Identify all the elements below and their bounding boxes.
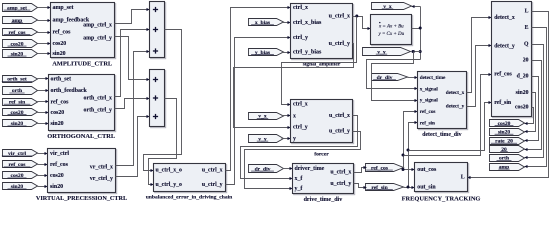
svg-text:cos20: cos20 bbox=[50, 173, 64, 179]
svg-text:ctrl_x_bias: ctrl_x_bias bbox=[293, 20, 322, 26]
svg-text:detect_y: detect_y bbox=[446, 104, 465, 110]
svg-text:detect_x: detect_x bbox=[494, 15, 515, 21]
svg-text:vir_ctrl: vir_ctrl bbox=[50, 151, 69, 157]
svg-text:out_sin: out_sin bbox=[417, 185, 436, 191]
svg-text:unbalanced_error_in_driving_ch: unbalanced_error_in_driving_chain bbox=[146, 195, 233, 201]
svg-text:u_ctrl_x_o: u_ctrl_x_o bbox=[156, 168, 183, 174]
svg-text:cos20: cos20 bbox=[53, 41, 67, 47]
svg-text:sin20: sin20 bbox=[51, 121, 64, 127]
svg-text:20: 20 bbox=[523, 58, 529, 64]
svg-text:cos20: cos20 bbox=[498, 121, 511, 127]
svg-text:orth: orth bbox=[499, 156, 509, 162]
svg-text:cos20: cos20 bbox=[10, 110, 23, 116]
svg-text:orth_set: orth_set bbox=[51, 77, 72, 83]
svg-text:sin20: sin20 bbox=[50, 184, 63, 190]
svg-text:ref_sin: ref_sin bbox=[494, 100, 512, 106]
svg-text:detect_time: detect_time bbox=[420, 75, 446, 81]
svg-text:y: y bbox=[293, 136, 296, 142]
svg-text:FREQUENCY_TRACKING: FREQUENCY_TRACKING bbox=[402, 196, 481, 203]
svg-text:out_cos: out_cos bbox=[417, 167, 437, 173]
svg-text:sin20: sin20 bbox=[516, 90, 529, 96]
svg-text:L: L bbox=[461, 175, 465, 181]
svg-text:AMPLITUDE_CTRL: AMPLITUDE_CTRL bbox=[52, 61, 112, 68]
svg-text:u_ctrl_y: u_ctrl_y bbox=[202, 182, 223, 188]
svg-text:ctrl_y_bias: ctrl_y_bias bbox=[293, 50, 322, 56]
svg-text:x_signal: x_signal bbox=[420, 86, 439, 92]
svg-text:orth_feedback: orth_feedback bbox=[51, 88, 88, 94]
svg-text:ctrl_y: ctrl_y bbox=[293, 125, 308, 131]
svg-text:detect_y: detect_y bbox=[494, 43, 515, 49]
svg-text:sin20: sin20 bbox=[11, 184, 24, 190]
svg-text:ref_cos: ref_cos bbox=[50, 162, 69, 168]
svg-text:x_bias: x_bias bbox=[255, 20, 271, 26]
svg-text:d_20: d_20 bbox=[517, 74, 529, 80]
svg-text:detect_time_div: detect_time_div bbox=[422, 132, 461, 138]
svg-text:vir_ctrl: vir_ctrl bbox=[8, 151, 26, 157]
svg-text:cos20: cos20 bbox=[51, 110, 65, 116]
svg-text:y_f: y_f bbox=[295, 186, 304, 192]
svg-text:x = Ax + Bu: x = Ax + Bu bbox=[378, 25, 404, 30]
svg-text:amp_ctrl_x: amp_ctrl_x bbox=[83, 23, 112, 29]
svg-text:v_x: v_x bbox=[383, 4, 392, 10]
svg-text:x: x bbox=[293, 114, 296, 120]
svg-text:x_f: x_f bbox=[295, 176, 304, 182]
svg-text:u_ctrl_y: u_ctrl_y bbox=[330, 181, 351, 187]
svg-text:E: E bbox=[525, 25, 529, 31]
svg-text:amp_ctrl_y: amp_ctrl_y bbox=[83, 36, 112, 42]
svg-text:driver_time: driver_time bbox=[295, 166, 325, 172]
svg-text:ref_cos: ref_cos bbox=[9, 162, 27, 168]
svg-text:ctrl_y: ctrl_y bbox=[293, 35, 308, 41]
svg-text:orth_ctrl_x: orth_ctrl_x bbox=[84, 96, 113, 102]
svg-text:ref_cos: ref_cos bbox=[494, 72, 512, 78]
svg-text:Q: Q bbox=[524, 42, 529, 48]
svg-text:ref_cos: ref_cos bbox=[51, 99, 70, 105]
svg-text:orth_ctrl_y: orth_ctrl_y bbox=[84, 108, 113, 114]
svg-text:u_ctrl_x: u_ctrl_x bbox=[329, 14, 350, 20]
svg-text:L: L bbox=[525, 9, 529, 15]
svg-text:y = Cx + Du: y = Cx + Du bbox=[377, 32, 404, 37]
svg-text:amp_set: amp_set bbox=[53, 5, 74, 11]
svg-text:cos20: cos20 bbox=[515, 105, 529, 111]
svg-text:y_signal: y_signal bbox=[420, 98, 439, 104]
svg-text:detect_x: detect_x bbox=[446, 90, 465, 96]
svg-text:u_ctrl_x: u_ctrl_x bbox=[330, 170, 351, 176]
svg-text:vr_ctrl_x: vr_ctrl_x bbox=[90, 165, 113, 171]
svg-text:u_ctrl_y_o: u_ctrl_y_o bbox=[156, 182, 183, 188]
svg-text:ref_sin: ref_sin bbox=[9, 99, 26, 105]
svg-text:VIRTUAL_PRECESSION_CTRL: VIRTUAL_PRECESSION_CTRL bbox=[36, 195, 127, 202]
svg-text:forcer: forcer bbox=[314, 151, 329, 157]
svg-text:u_ctrl_x: u_ctrl_x bbox=[202, 168, 223, 174]
svg-text:u_ctrl_y: u_ctrl_y bbox=[329, 129, 350, 135]
svg-text:u_ctrl_x: u_ctrl_x bbox=[329, 113, 350, 119]
svg-text:vr_ctrl_y: vr_ctrl_y bbox=[90, 176, 113, 182]
svg-text:ctrl_x: ctrl_x bbox=[293, 102, 308, 108]
svg-text:cos20: cos20 bbox=[10, 173, 23, 179]
svg-text:ORTHOGONAL_CTRL: ORTHOGONAL_CTRL bbox=[47, 133, 115, 140]
svg-text:ref_cos: ref_cos bbox=[420, 109, 436, 115]
svg-text:ctrl_x: ctrl_x bbox=[293, 5, 308, 11]
svg-text:sin20: sin20 bbox=[53, 51, 66, 57]
svg-text:ref_cos: ref_cos bbox=[53, 30, 72, 36]
svg-text:ref_sin: ref_sin bbox=[420, 121, 435, 127]
svg-text:u_ctrl_y: u_ctrl_y bbox=[329, 41, 350, 47]
svg-text:drive_time_div: drive_time_div bbox=[304, 197, 343, 203]
